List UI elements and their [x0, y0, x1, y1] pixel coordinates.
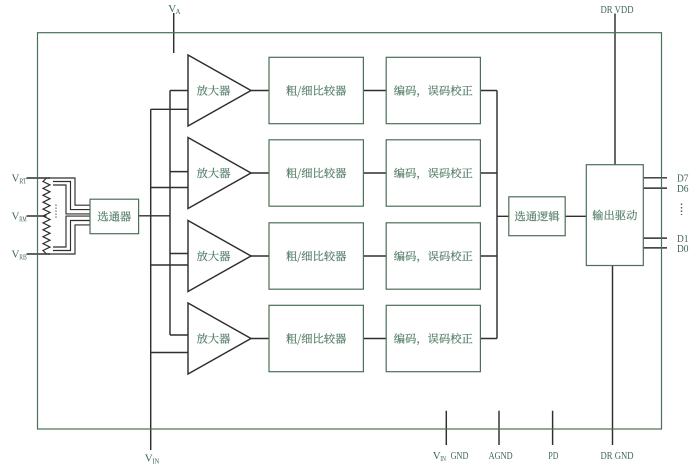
svg-text:DR VDD: DR VDD	[601, 4, 634, 16]
svg-text:RT: RT	[19, 178, 27, 186]
svg-text:RM: RM	[19, 216, 27, 224]
svg-text:DR GND: DR GND	[601, 450, 634, 462]
svg-text:D6: D6	[677, 183, 689, 195]
svg-text:PD: PD	[548, 450, 558, 462]
svg-text:IN: IN	[152, 458, 159, 466]
svg-text:RB: RB	[19, 254, 27, 262]
svg-text:D0: D0	[677, 243, 689, 255]
svg-text:GND: GND	[451, 450, 469, 462]
svg-text:AGND: AGND	[489, 450, 513, 462]
svg-text:A: A	[176, 8, 181, 16]
svg-text:IN: IN	[440, 455, 446, 463]
